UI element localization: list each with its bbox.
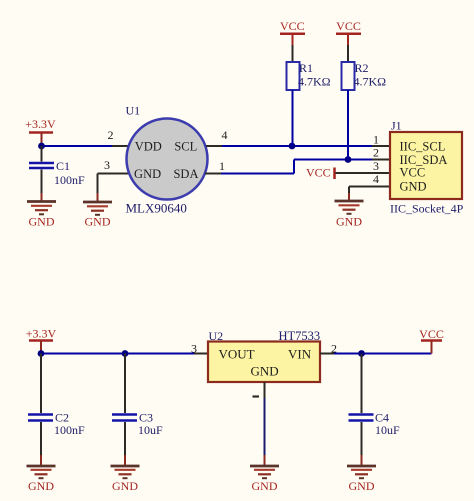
svg-text:3: 3: [373, 159, 379, 173]
svg-text:GND: GND: [29, 215, 55, 229]
svg-text:4.7KΩ: 4.7KΩ: [354, 75, 387, 89]
svg-text:2: 2: [373, 146, 379, 160]
svg-text:R1: R1: [299, 61, 313, 75]
svg-text:GND: GND: [112, 479, 138, 493]
svg-text:HT7533: HT7533: [279, 329, 321, 343]
svg-text:U2: U2: [209, 329, 224, 343]
svg-text:VCC: VCC: [419, 327, 444, 341]
svg-text:J1: J1: [391, 119, 402, 133]
svg-text:4: 4: [222, 128, 228, 142]
svg-text:3: 3: [104, 158, 110, 172]
svg-text:GND: GND: [251, 364, 279, 379]
svg-text:IIC_SCL: IIC_SCL: [400, 140, 446, 154]
svg-text:1: 1: [373, 133, 379, 147]
svg-text:GND: GND: [134, 167, 161, 181]
svg-text:VIN: VIN: [288, 347, 312, 362]
svg-text:3: 3: [191, 342, 197, 356]
svg-text:VOUT: VOUT: [219, 347, 255, 362]
svg-text:VCC: VCC: [400, 165, 426, 179]
svg-text:U1: U1: [126, 104, 141, 118]
svg-text:2: 2: [108, 128, 114, 142]
svg-text:4: 4: [373, 172, 379, 186]
svg-text:GND: GND: [85, 215, 111, 229]
svg-text:IIC_Socket_4P: IIC_Socket_4P: [390, 202, 464, 216]
svg-text:GND: GND: [28, 479, 54, 493]
svg-text:SDA: SDA: [173, 167, 198, 181]
svg-text:MLX90640: MLX90640: [126, 201, 187, 216]
svg-text:GND: GND: [349, 479, 375, 493]
svg-text:GND: GND: [400, 179, 427, 193]
svg-text:100nF: 100nF: [54, 423, 85, 437]
svg-text:SCL: SCL: [174, 140, 197, 154]
svg-text:VCC: VCC: [280, 19, 305, 33]
svg-text:10uF: 10uF: [138, 423, 163, 437]
svg-text:VCC: VCC: [306, 166, 331, 180]
svg-text:100nF: 100nF: [54, 173, 85, 187]
svg-text:VDD: VDD: [135, 140, 162, 154]
svg-text:VCC: VCC: [336, 19, 361, 33]
svg-text:GND: GND: [252, 479, 278, 493]
svg-text:+3.3V: +3.3V: [25, 117, 56, 131]
svg-text:10uF: 10uF: [375, 423, 400, 437]
svg-text:4.7KΩ: 4.7KΩ: [298, 75, 331, 89]
svg-text:R2: R2: [355, 61, 369, 75]
svg-text:1: 1: [219, 159, 225, 173]
svg-text:GND: GND: [336, 215, 362, 229]
svg-text:+3.3V: +3.3V: [26, 327, 57, 341]
svg-text:C1: C1: [56, 159, 70, 173]
